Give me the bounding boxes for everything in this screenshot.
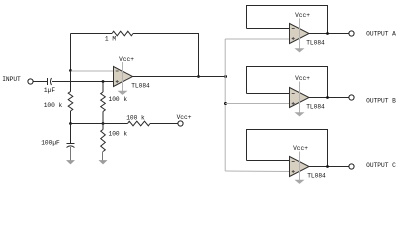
resistor R4 100k horizontal [128,121,151,126]
svg-text:100 k: 100 k [109,131,128,138]
resistor R5 100k vertical [101,130,106,152]
resistor R2 100k vertical [101,92,106,112]
node output distribution dot [224,75,227,78]
svg-text:INPUT: INPUT [2,76,21,83]
wire to inverting input (gray) [71,70,114,72]
U4 negative supply arrow [295,180,305,184]
svg-text:100µF: 100µF [41,139,60,146]
node bias line center dot [102,122,105,125]
wire node to resistor R3 [70,71,72,92]
resistor R3 100k vertical [68,92,73,112]
svg-text:100 k: 100 k [109,96,128,103]
buffer A feedback loop wire [247,6,328,34]
op-amp U1 TL084 [114,67,133,87]
node junction dot at +input / R2 [102,80,105,83]
wire buffer B - input [247,93,290,95]
capacitor C2 100uF wire from bias node [70,124,72,144]
node junction dot inverting input [69,69,72,72]
svg-text:Vcc+: Vcc+ [119,56,134,63]
wire input to capacitor [33,81,47,83]
svg-text:1 M: 1 M [105,36,116,43]
op-amp U3 TL084 buffer B [290,88,310,108]
U2 inverting pin mark [292,28,295,30]
svg-text:Vcc+: Vcc+ [295,75,310,82]
svg-text:Vcc+: Vcc+ [295,12,310,19]
wire buffer A + input (gray) [225,38,289,40]
U1 power rail line (gray) [122,62,124,91]
node bias line left dot [69,122,72,125]
node U3 output dot [326,96,329,99]
wire feedback top horizontal [71,33,113,35]
wire distribution line vertical (gray) [224,39,226,171]
capacitor C2 100uF [67,144,75,148]
buffer B feedback loop wire [247,67,328,98]
U4 power rail line (gray) [299,152,301,181]
svg-text:TL084: TL084 [307,172,326,179]
U3 power rail line (gray) [299,82,301,113]
U1 negative supply arrow [118,91,128,95]
wire R2 to bias node [102,112,104,124]
U1 inverting pin mark [116,70,119,72]
wire R5 from bias node [102,124,104,130]
U4 inverting pin mark [292,161,295,163]
U1 non-inverting pin mark [116,80,119,83]
ground arrow under R5 [99,160,108,164]
svg-text:TL084: TL084 [306,103,325,110]
wire U1 output [133,76,226,78]
wire U4 output [309,166,349,168]
U2 negative supply arrow [295,48,305,52]
node U4 output dot [326,165,329,168]
wire feedback top left vertical [70,34,72,71]
wire buffer C + input (gray) [225,170,289,173]
U2 non-inverting pin mark [292,37,295,40]
node U2 output dot [326,32,329,35]
buffer C feedback loop wire [247,130,328,167]
wire R3 to bias line [70,111,72,124]
input terminal [28,79,33,84]
ground arrow under C2 [66,160,75,164]
wire R4 to Vcc terminal [150,123,178,125]
svg-text:Vcc+: Vcc+ [293,145,308,152]
op-amp U2 TL084 buffer A [290,24,310,44]
node buffer B + junction dot [224,102,227,105]
wire buffer B + input (gray) [225,103,289,105]
wire buffer C - input [247,160,290,162]
svg-text:100 k: 100 k [44,102,63,109]
capacitor C1 1uF [48,78,52,85]
U3 inverting pin mark [292,93,295,95]
wire buffer A - input [247,28,290,30]
svg-text:OUTPUT B: OUTPUT B [366,98,396,105]
OUTPUT A terminal [349,31,354,36]
wire C2 to ground [70,147,72,161]
svg-text:Vcc+: Vcc+ [177,114,192,121]
wire capacitor to op-amp + input [52,81,114,83]
op-amp U4 TL084 buffer C [290,157,310,177]
wire U2 output [309,33,349,35]
svg-text:1µF: 1µF [44,87,55,94]
wire U3 output [309,97,349,99]
svg-text:OUTPUT C: OUTPUT C [366,162,396,169]
svg-text:TL084: TL084 [131,82,150,89]
wire feedback to output node [133,34,199,77]
wire R5 to ground [102,152,104,161]
Vcc+ terminal circle [178,121,183,126]
node feedback/output junction dot [197,75,200,78]
OUTPUT B terminal [349,95,354,100]
svg-text:TL084: TL084 [306,39,325,46]
wire R2 from +input node [102,82,104,93]
U3 non-inverting pin mark [292,102,295,105]
wire bias line [71,123,128,125]
U2 power rail line (gray) [299,19,301,49]
svg-text:100 k: 100 k [126,114,145,121]
U3 negative supply arrow [295,112,305,116]
U4 non-inverting pin mark [292,170,295,173]
OUTPUT C terminal [349,164,354,169]
svg-text:OUTPUT A: OUTPUT A [366,30,396,37]
resistor R1 1M feedback [112,31,133,36]
